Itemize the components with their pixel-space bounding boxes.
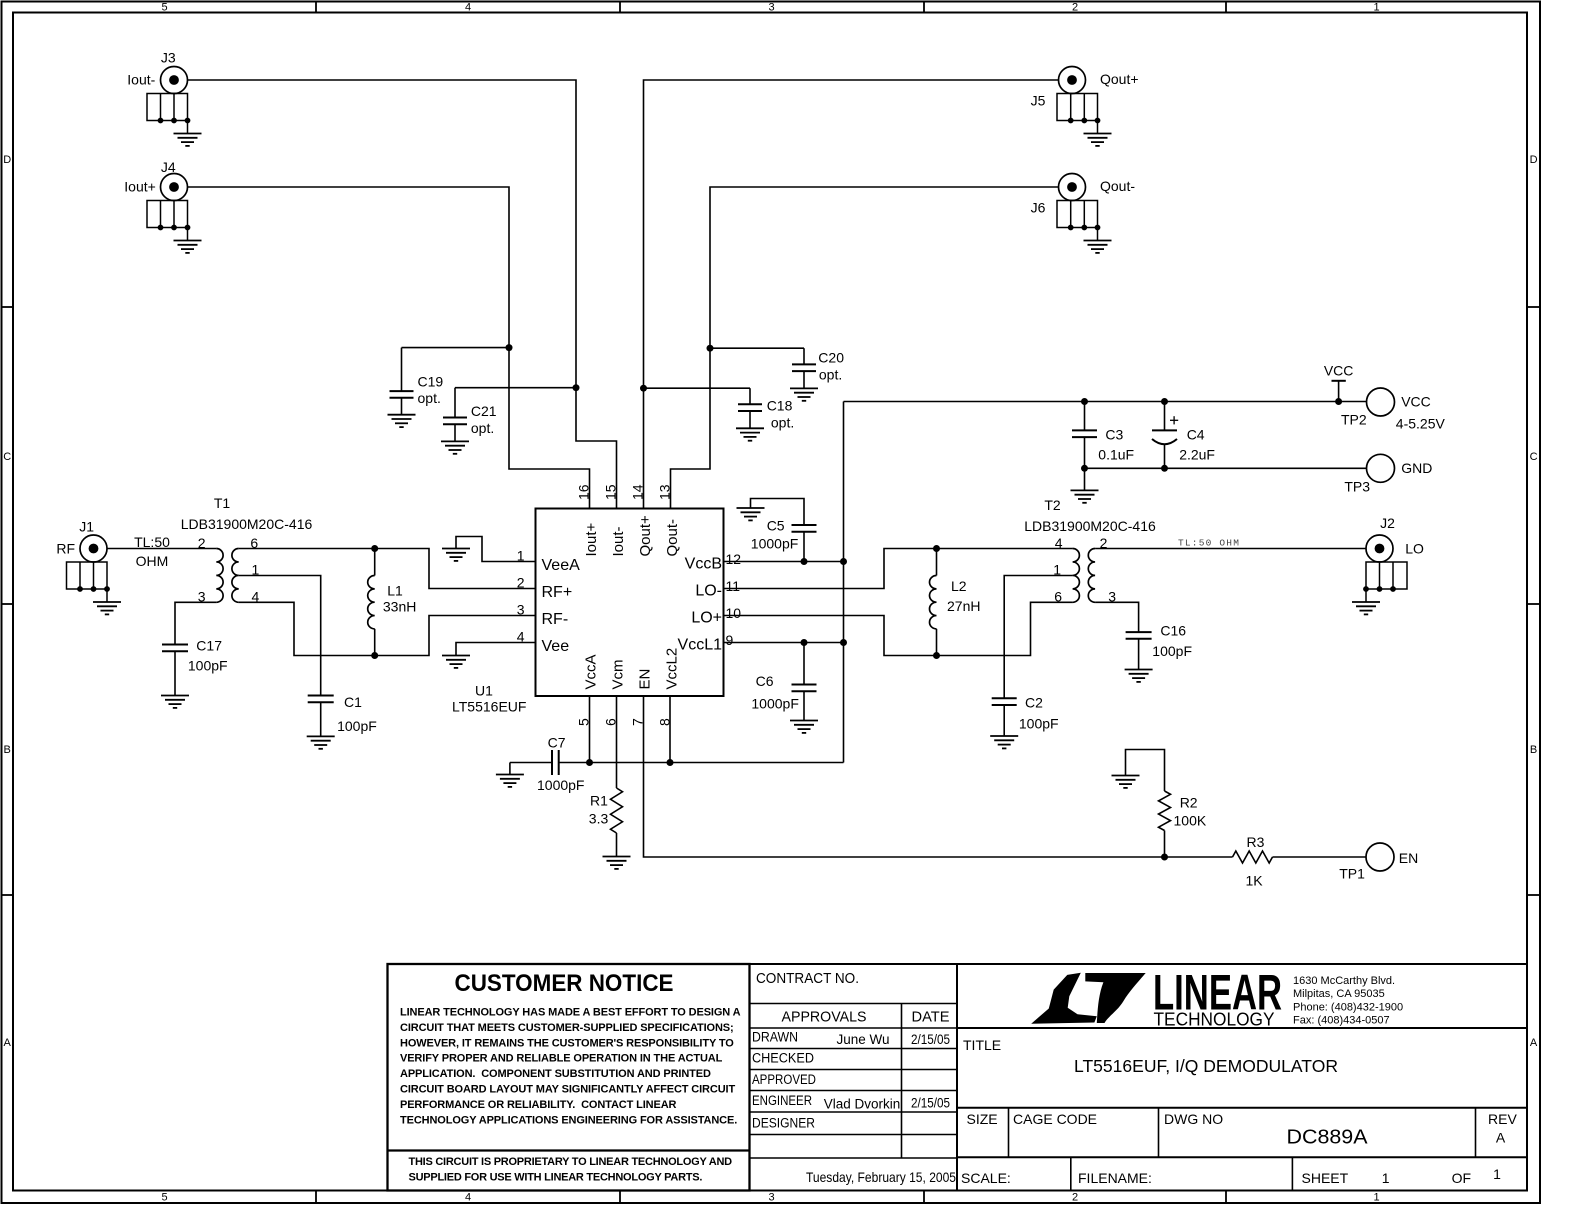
svg-text:D: D (1530, 154, 1538, 166)
ground (161, 696, 189, 708)
op-amp U1 LT5516EUF body (452, 509, 724, 715)
svg-text:C3: C3 (1105, 427, 1123, 443)
svg-text:DATE: DATE (912, 1009, 950, 1026)
node C3 bottom junction (1081, 465, 1088, 472)
svg-text:LO+: LO+ (691, 610, 722, 627)
wire VCC rail vertical (843, 402, 845, 763)
svg-text:ENGINEER: ENGINEER (752, 1093, 812, 1108)
svg-text:VCC: VCC (1401, 394, 1431, 410)
transformer T1 (181, 495, 313, 605)
svg-text:C6: C6 (756, 673, 774, 689)
svg-text:L1: L1 (387, 583, 403, 599)
wire U1 pin1 VeeA to ground (456, 537, 536, 562)
title text (961, 1037, 1517, 1186)
svg-text:VeeA: VeeA (542, 557, 581, 574)
wire T1 pin 4 to U1 RF- (239, 602, 536, 655)
svg-text:100pF: 100pF (1152, 643, 1192, 659)
svg-text:J2: J2 (1380, 515, 1395, 531)
svg-text:VERIFY PROPER AND RELIABLE OPE: VERIFY PROPER AND RELIABLE OPERATION IN … (400, 1053, 723, 1065)
svg-text:4-5.25V: 4-5.25V (1396, 416, 1446, 432)
svg-text:TP2: TP2 (1341, 412, 1367, 428)
svg-text:LO-: LO- (695, 583, 722, 600)
wire J5 to U1 pin 14 (Qout+) (644, 80, 1059, 509)
inductor L2 27nH (930, 549, 981, 656)
capacitor C17 (162, 638, 228, 696)
svg-text:100K: 100K (1174, 813, 1207, 829)
svg-text:1630 McCarthy Blvd.: 1630 McCarthy Blvd. (1293, 975, 1395, 987)
test point TP1 EN (1339, 843, 1418, 882)
capacitor C6 1000pF (751, 643, 816, 721)
svg-text:TITLE: TITLE (963, 1037, 1001, 1053)
svg-text:LO: LO (1405, 541, 1424, 557)
resistor R3 1K (1233, 834, 1273, 889)
capacitor C16 100pF (1126, 623, 1192, 670)
wire T1 pin 3 to C17 (175, 602, 216, 644)
svg-text:1000pF: 1000pF (751, 696, 798, 712)
svg-text:J1: J1 (79, 519, 94, 535)
svg-text:LINEAR TECHNOLOGY HAS MADE A B: LINEAR TECHNOLOGY HAS MADE A BEST EFFORT… (400, 1007, 741, 1019)
transformer T2 (1024, 497, 1156, 605)
svg-text:RF: RF (56, 541, 75, 557)
svg-text:15: 15 (603, 484, 619, 500)
svg-text:CUSTOMER NOTICE: CUSTOMER NOTICE (455, 970, 674, 997)
wire U1 pin12 VccB to VCC rail (724, 561, 844, 563)
capacitor C18 (738, 388, 794, 430)
title block (388, 964, 1528, 1191)
svg-text:opt.: opt. (471, 420, 494, 436)
customer notice text (400, 970, 741, 1183)
svg-text:Iout+: Iout+ (583, 522, 600, 556)
wire C7 net to pins 5/8 and VCC rail (510, 762, 844, 764)
J6 coax shield (1057, 201, 1112, 253)
svg-text:100pF: 100pF (337, 718, 377, 734)
node junction C18/Qout+ net (640, 385, 647, 392)
svg-text:U1: U1 (475, 683, 493, 699)
svg-text:Qout+: Qout+ (1100, 71, 1139, 87)
wire T2 pin 2 to J2 (1095, 538, 1366, 549)
node junction C19/Iout+ net (506, 344, 513, 351)
svg-text:VCC: VCC (1324, 363, 1354, 379)
svg-text:D: D (3, 154, 11, 166)
svg-text:1K: 1K (1245, 873, 1263, 889)
svg-text:1: 1 (1382, 1170, 1390, 1186)
capacitor C1 (308, 694, 377, 736)
svg-text:C21: C21 (471, 403, 497, 419)
ground (790, 721, 818, 733)
J5 coax shield (1057, 94, 1112, 146)
svg-text:Iout+: Iout+ (124, 178, 156, 194)
connector J4 (Iout+) (124, 159, 187, 201)
svg-text:Vcm: Vcm (610, 660, 627, 690)
svg-text:4: 4 (465, 2, 471, 14)
svg-text:THIS CIRCUIT IS PROPRIETARY TO: THIS CIRCUIT IS PROPRIETARY TO LINEAR TE… (409, 1156, 733, 1168)
svg-text:6: 6 (1054, 589, 1062, 605)
svg-text:GND: GND (1401, 460, 1432, 476)
svg-text:2: 2 (1072, 2, 1078, 14)
svg-text:2: 2 (517, 575, 525, 591)
U1 bottom pin names (583, 648, 681, 690)
wire U1 pin6 Vcm to R1 (616, 696, 618, 788)
svg-text:100pF: 100pF (1019, 716, 1059, 732)
svg-text:Iout-: Iout- (127, 71, 155, 87)
svg-text:C: C (3, 451, 11, 463)
node C3 top junction (1081, 398, 1088, 405)
connector J5 (Qout+) (1031, 67, 1139, 109)
wire J3 to U1 pin 15 (Iout-) (188, 80, 617, 509)
svg-text:C19: C19 (418, 373, 444, 389)
ground (737, 508, 765, 520)
svg-text:16: 16 (576, 484, 592, 500)
svg-text:12: 12 (726, 551, 742, 567)
wire U1 pin8 VccL2 down (669, 696, 671, 763)
capacitor C4 2.2uF polarized (1152, 402, 1215, 469)
svg-text:RF+: RF+ (542, 584, 573, 601)
svg-text:2: 2 (1072, 1192, 1078, 1204)
ground (496, 763, 524, 787)
svg-text:Vee: Vee (542, 638, 570, 655)
svg-text:5: 5 (161, 1192, 167, 1204)
svg-text:4: 4 (1055, 535, 1063, 551)
svg-text:1: 1 (1493, 1166, 1501, 1182)
svg-text:11: 11 (726, 578, 741, 594)
svg-text:OF: OF (1452, 1170, 1471, 1186)
U1 top pin numbers (576, 484, 673, 500)
node junction C21/Iout- net (573, 384, 580, 391)
svg-text:Iout-: Iout- (610, 526, 627, 556)
svg-text:CAGE CODE: CAGE CODE (1013, 1111, 1097, 1127)
ground (442, 549, 470, 561)
node C4 bottom junction (1161, 465, 1168, 472)
svg-text:TL:50 OHM: TL:50 OHM (1178, 538, 1240, 549)
ground (1071, 468, 1099, 503)
svg-text:1000pF: 1000pF (537, 777, 584, 793)
svg-text:EN: EN (637, 669, 654, 690)
svg-text:DC889A: DC889A (1287, 1127, 1369, 1149)
ground (1125, 670, 1153, 682)
svg-text:VccL2: VccL2 (664, 648, 681, 690)
wire R3 to TP1 (1273, 856, 1367, 858)
svg-text:TL:50: TL:50 (134, 534, 170, 550)
svg-text:13: 13 (657, 484, 673, 500)
node L2 bottom junction (933, 652, 940, 659)
svg-text:A: A (1530, 1037, 1538, 1049)
svg-text:2/15/05: 2/15/05 (911, 1096, 950, 1111)
ground (307, 736, 335, 748)
capacitor C21 (443, 388, 497, 442)
node C4 top junction (1161, 398, 1168, 405)
node L1 top junction (371, 545, 378, 552)
svg-text:APPROVALS: APPROVALS (782, 1009, 867, 1026)
resistor R2 100K (1159, 791, 1207, 831)
ground (442, 656, 470, 668)
ground (603, 857, 631, 869)
approvals table text (752, 970, 956, 1185)
svg-text:APPROVED: APPROVED (752, 1072, 816, 1087)
svg-text:R1: R1 (590, 793, 608, 809)
capacitor C3 0.1uF (1072, 402, 1134, 469)
svg-text:Qout-: Qout- (664, 519, 681, 557)
connector J2 (LO) (1366, 515, 1424, 562)
node junction C20/Qout- net (707, 345, 714, 352)
svg-text:VccB: VccB (685, 556, 722, 573)
wire T2 pin 3 to C16 (1095, 602, 1139, 632)
ground (1112, 776, 1140, 788)
svg-text:C17: C17 (196, 638, 222, 654)
svg-text:TECHNOLOGY APPLICATIONS ENGINE: TECHNOLOGY APPLICATIONS ENGINEERING FOR … (400, 1114, 737, 1126)
svg-text:SHEET: SHEET (1302, 1170, 1349, 1186)
svg-text:C5: C5 (767, 518, 785, 534)
U1 bottom pin numbers (576, 718, 673, 726)
svg-text:R3: R3 (1247, 834, 1265, 850)
capacitor C5 1000pF (751, 499, 817, 562)
wire U1 pin10 LO+ to T2 pin 6 (724, 602, 1073, 655)
wire U1 pin9 VccL1 to VCC rail (724, 642, 844, 644)
svg-text:33nH: 33nH (383, 599, 416, 615)
wire J6 to U1 pin 13 (Qout-) (671, 187, 1059, 509)
J2 coax shield (1352, 562, 1407, 614)
wire C19 tap (402, 347, 510, 349)
node VccL1/VCC rail junction (840, 639, 847, 646)
wire J1 to T1 pin 2 (107, 534, 216, 569)
svg-text:APPLICATION. COMPONENT SUBSTI: APPLICATION. COMPONENT SUBSTITUTION AND … (400, 1068, 711, 1080)
svg-text:J3: J3 (161, 50, 176, 66)
svg-text:C1: C1 (344, 694, 362, 710)
svg-text:C: C (1530, 451, 1538, 463)
svg-text:HOWEVER, IT REMAINS THE CUSTOM: HOWEVER, IT REMAINS THE CUSTOMER'S RESPO… (400, 1037, 734, 1049)
svg-text:REV: REV (1488, 1111, 1517, 1127)
svg-text:14: 14 (630, 484, 646, 500)
svg-text:DWG NO: DWG NO (1164, 1111, 1223, 1127)
svg-text:2.2uF: 2.2uF (1179, 447, 1215, 463)
node pin8 junction (667, 759, 674, 766)
svg-text:3.3: 3.3 (589, 811, 609, 827)
svg-text:RF-: RF- (542, 611, 569, 628)
capacitor C7 1000pF (537, 735, 584, 794)
node L2 top junction (933, 545, 940, 552)
svg-text:1000pF: 1000pF (751, 536, 798, 552)
svg-text:EN: EN (1399, 850, 1418, 866)
svg-text:LT5516EUF: LT5516EUF (452, 699, 526, 715)
svg-text:C2: C2 (1025, 695, 1043, 711)
capacitor C19 (390, 348, 444, 415)
svg-text:DRAWN: DRAWN (752, 1029, 798, 1044)
wire T1 pin 1 to C1 (239, 576, 321, 696)
svg-text:B: B (1530, 744, 1537, 756)
connector J1 (RF) (56, 519, 107, 563)
wire VCC horizontal to TP2 (844, 401, 1367, 403)
svg-text:4: 4 (465, 1192, 471, 1204)
resistor R1 3.3 (589, 788, 623, 833)
svg-text:LDB31900M20C-416: LDB31900M20C-416 (1024, 518, 1156, 534)
svg-text:VccA: VccA (583, 654, 600, 689)
svg-text:CHECKED: CHECKED (752, 1051, 814, 1066)
svg-text:10: 10 (726, 605, 742, 621)
svg-text:Qout+: Qout+ (637, 515, 654, 557)
U1 left pin numbers (517, 548, 525, 645)
svg-text:C20: C20 (818, 350, 844, 366)
svg-text:SIZE: SIZE (967, 1111, 998, 1127)
J3 coax shield (147, 94, 202, 146)
svg-text:T2: T2 (1044, 497, 1061, 513)
svg-text:Fax: (408)434-0507: Fax: (408)434-0507 (1293, 1015, 1390, 1027)
J1 coax shield (67, 562, 122, 614)
wire T2 pin 1 to C2 (1004, 576, 1072, 699)
svg-text:3: 3 (517, 602, 525, 618)
ground (441, 441, 469, 453)
ground (736, 428, 764, 440)
svg-text:TECHNOLOGY: TECHNOLOGY (1154, 1009, 1275, 1029)
svg-text:2/15/05: 2/15/05 (911, 1032, 950, 1047)
svg-text:DESIGNER: DESIGNER (752, 1115, 815, 1130)
svg-text:PERFORMANCE OR RELIABILITY. C: PERFORMANCE OR RELIABILITY. CONTACT LINE… (400, 1099, 677, 1111)
VCC power symbol (1324, 363, 1354, 402)
svg-text:LT5516EUF, I/Q DEMODULATOR: LT5516EUF, I/Q DEMODULATOR (1074, 1056, 1338, 1076)
svg-text:C16: C16 (1160, 623, 1186, 639)
U1 right pin names (678, 556, 723, 654)
wire R2 bottom to EN net (1164, 831, 1166, 858)
test point TP2 VCC (1341, 388, 1445, 432)
svg-text:J4: J4 (161, 159, 176, 175)
ground (990, 736, 1018, 748)
svg-text:Tuesday, February 15, 2005: Tuesday, February 15, 2005 (806, 1169, 956, 1185)
wire T1 pin 6 to U1 RF+ (239, 549, 536, 589)
U1 right pin numbers (726, 551, 742, 648)
wire C18 tap (644, 387, 751, 389)
svg-text:CIRCUIT THAT MEETS CUSTOMER-SU: CIRCUIT THAT MEETS CUSTOMER-SUPPLIED SPE… (400, 1022, 734, 1034)
svg-text:A: A (4, 1037, 12, 1049)
node C5 junction (801, 558, 808, 565)
wire U1 pin5 VccA down (589, 696, 591, 763)
svg-text:TP3: TP3 (1344, 479, 1370, 495)
svg-text:3: 3 (768, 1192, 774, 1204)
capacitor C2 100pF (992, 695, 1059, 737)
svg-text:CONTRACT NO.: CONTRACT NO. (756, 970, 859, 987)
svg-text:SUPPLIED FOR USE WITH LINEAR T: SUPPLIED FOR USE WITH LINEAR TECHNOLOGY … (409, 1171, 703, 1183)
svg-text:OHM: OHM (136, 553, 169, 569)
wire J4 to U1 pin 16 (Iout+) (188, 187, 590, 509)
svg-text:T1: T1 (214, 495, 231, 511)
svg-text:L2: L2 (951, 578, 967, 594)
wire U1 pin11 LO- to T2 pin 4 (724, 549, 1073, 589)
node L1 bottom junction (371, 652, 378, 659)
svg-text:CIRCUIT BOARD LAYOUT MAY SIGNI: CIRCUIT BOARD LAYOUT MAY SIGNIFICANTLY A… (400, 1084, 735, 1096)
capacitor C20 (792, 348, 844, 388)
svg-text:LDB31900M20C-416: LDB31900M20C-416 (181, 516, 313, 532)
svg-text:2: 2 (198, 535, 206, 551)
svg-text:100pF: 100pF (188, 658, 228, 674)
svg-text:R2: R2 (1180, 795, 1198, 811)
connector J6 (Qout-) (1031, 174, 1136, 216)
svg-text:opt.: opt. (819, 367, 842, 383)
wire R2 top to ground hook (1126, 750, 1165, 792)
svg-text:C4: C4 (1187, 427, 1205, 443)
wire U1 pin7 EN to R3 (644, 696, 1233, 857)
wire GND horizontal to TP3 (1085, 467, 1367, 469)
wire U1 pin4 Vee to ground (456, 643, 536, 656)
svg-text:VccL1: VccL1 (678, 637, 723, 654)
test point TP3 GND (1344, 454, 1432, 494)
wire C21 tap (455, 387, 576, 389)
svg-text:A: A (1496, 1130, 1506, 1146)
svg-text:June Wu: June Wu (836, 1032, 889, 1047)
svg-text:FILENAME:: FILENAME: (1078, 1170, 1152, 1186)
svg-text:1: 1 (1373, 2, 1379, 14)
svg-text:0.1uF: 0.1uF (1098, 447, 1134, 463)
ground (790, 388, 818, 400)
wire R1 to ground (616, 833, 618, 857)
svg-text:3: 3 (768, 2, 774, 14)
svg-text:B: B (4, 744, 11, 756)
svg-text:J6: J6 (1031, 199, 1046, 215)
connector J3 (Iout-) (127, 50, 187, 94)
svg-text:Phone: (408)432-1900: Phone: (408)432-1900 (1293, 1002, 1403, 1014)
svg-text:opt.: opt. (418, 390, 441, 406)
svg-text:TP1: TP1 (1339, 866, 1365, 882)
svg-text:Vlad Dvorkin: Vlad Dvorkin (824, 1097, 901, 1112)
svg-text:C18: C18 (767, 398, 793, 414)
node VccB/VCC rail junction (840, 558, 847, 565)
svg-text:opt.: opt. (771, 415, 794, 431)
U1 left pin names (542, 557, 581, 655)
svg-text:27nH: 27nH (947, 598, 980, 614)
node C6 junction (801, 639, 808, 646)
svg-text:Qout-: Qout- (1100, 178, 1135, 194)
svg-text:C7: C7 (548, 735, 566, 751)
wire C20 tap (710, 347, 804, 349)
node R2/EN junction (1161, 854, 1168, 861)
U1 top pin names (583, 515, 681, 557)
node VCC symbol junction (1335, 398, 1342, 405)
svg-text:Milpitas, CA 95035: Milpitas, CA 95035 (1293, 988, 1385, 1000)
svg-text:J5: J5 (1031, 92, 1046, 108)
inductor L1 33nH (368, 549, 417, 656)
ground (388, 415, 416, 427)
svg-text:1: 1 (1373, 1192, 1379, 1204)
svg-text:5: 5 (161, 2, 167, 14)
node pin5 junction (586, 759, 593, 766)
J4 coax shield (147, 201, 202, 253)
svg-text:9: 9 (726, 632, 734, 648)
Linear Technology logo (1031, 965, 1403, 1030)
svg-text:SCALE:: SCALE: (961, 1170, 1011, 1186)
